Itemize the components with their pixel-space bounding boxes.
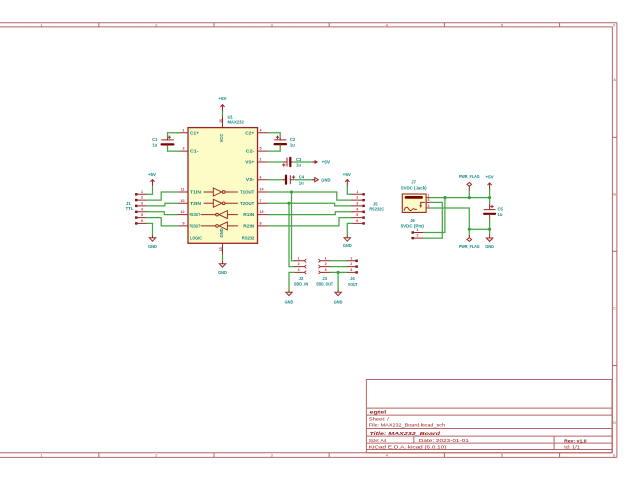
svg-text:1: 1	[183, 128, 185, 132]
J5 pin 5	[352, 213, 365, 219]
junction T2OUT branch	[287, 202, 290, 205]
svg-text:GND: GND	[334, 299, 343, 304]
svg-text:9: 9	[183, 222, 185, 226]
junction J3.3 GND branch	[337, 271, 340, 274]
svg-text:KiCad E.D.A. kicad (6.0.10): KiCad E.D.A. kicad (6.0.10)	[369, 445, 447, 450]
wire J6.1 branch	[422, 198, 445, 233]
power +5V at J1	[148, 172, 156, 186]
power +5V at J5	[343, 172, 351, 186]
svg-text:GND: GND	[218, 270, 227, 275]
svg-text:A: A	[613, 77, 616, 82]
svg-text:T2OUT: T2OUT	[240, 201, 255, 206]
svg-text:GND: GND	[285, 299, 294, 304]
J5 pin 3	[352, 202, 365, 208]
svg-text:C1: C1	[152, 137, 158, 142]
ground at rail	[485, 229, 494, 249]
svg-text:J4: J4	[350, 276, 355, 281]
wire T1OUT to J5.2	[268, 192, 352, 200]
svg-text:Size: A4: Size: A4	[369, 438, 387, 443]
svg-text:Date: 2023-01-01: Date: 2023-01-01	[419, 438, 470, 443]
svg-text:VOUT: VOUT	[348, 282, 358, 287]
svg-text:T2IN: T2IN	[190, 201, 201, 206]
U1 pin 12	[177, 210, 188, 214]
connector J6 5VDC pin	[401, 218, 425, 228]
svg-text:GND: GND	[321, 177, 330, 182]
J6 pin 1	[412, 228, 423, 234]
wire J1.1 to +5V	[147, 186, 153, 195]
svg-text:C2-: C2-	[246, 149, 255, 154]
svg-text:C3: C3	[296, 157, 302, 162]
wire J7.3 to J6.2	[422, 202, 442, 238]
U1 pin 11	[177, 188, 188, 192]
svg-text:5: 5	[141, 213, 143, 217]
wire R1IN to J5.4	[268, 212, 352, 215]
connector J5 RS232C	[369, 202, 384, 212]
svg-text:3: 3	[350, 268, 352, 272]
U1 pin 14	[258, 188, 269, 192]
svg-text:GND: GND	[343, 243, 352, 248]
J5 pin 6	[352, 219, 365, 225]
svg-text:+5V: +5V	[148, 172, 156, 177]
svg-text:5VDC (Jack): 5VDC (Jack)	[401, 186, 427, 191]
svg-text:1: 1	[428, 193, 430, 197]
svg-text:1: 1	[417, 228, 419, 232]
J3 pin 1	[319, 256, 331, 262]
svg-text:1u: 1u	[290, 143, 295, 148]
capacitor C4	[268, 175, 315, 186]
svg-text:T1IN: T1IN	[190, 190, 201, 195]
node +5V label at C3	[313, 160, 331, 165]
svg-text:VS+: VS+	[245, 160, 255, 165]
U1 pin 10	[177, 199, 188, 203]
J1 pin 3	[135, 202, 147, 208]
svg-text:SBD_OUT: SBD_OUT	[316, 281, 333, 286]
U1 buffer R2	[201, 222, 238, 230]
svg-text:1u: 1u	[299, 180, 304, 185]
wire T2OUT branch to J2.2	[289, 203, 294, 266]
J5 pin 1	[352, 190, 365, 196]
wire J1.2 to T1IN	[147, 192, 177, 200]
ground at J3	[334, 290, 343, 304]
J1 pin 6	[135, 219, 147, 225]
svg-text:7: 7	[260, 199, 262, 203]
connector J3 SBD_OUT	[316, 276, 333, 286]
svg-text:12: 12	[181, 210, 185, 214]
wire T2OUT to J5.3	[268, 203, 352, 206]
svg-text:3: 3	[428, 198, 430, 202]
wire J5.1 to +5V	[347, 186, 352, 195]
junction gnd corner	[488, 228, 491, 231]
svg-text:C2: C2	[290, 137, 296, 142]
svg-text:+5V: +5V	[343, 172, 351, 177]
J1 pin 4	[135, 207, 147, 213]
J7 pin 2	[427, 204, 431, 208]
svg-text:LOGIC: LOGIC	[190, 235, 202, 240]
svg-text:VCC: VCC	[219, 134, 224, 143]
wire J2.3 to GND	[289, 272, 294, 290]
wire J1.6 to GND	[147, 223, 153, 236]
svg-text:R1IN: R1IN	[243, 212, 254, 217]
svg-text:10: 10	[181, 199, 185, 203]
wire J3.1 to J4.1	[331, 260, 348, 262]
svg-text:14: 14	[260, 188, 264, 192]
U1 buffer R1	[201, 211, 238, 219]
op-amp U1 MAX232 body	[188, 114, 258, 243]
svg-text:PWR_FLAG: PWR_FLAG	[459, 174, 480, 179]
svg-text:Rev: v1.0: Rev: v1.0	[564, 438, 587, 443]
svg-text:SBD_IN: SBD_IN	[294, 281, 309, 286]
U1 pin 16	[219, 116, 223, 128]
svg-text:16: 16	[219, 119, 223, 123]
svg-text:3: 3	[183, 147, 185, 151]
svg-text:C2+: C2+	[245, 130, 255, 135]
U1 pin 15	[219, 243, 223, 255]
svg-text:4: 4	[260, 128, 262, 132]
svg-text:TTL: TTL	[126, 206, 134, 211]
svg-text:2: 2	[428, 204, 430, 208]
svg-text:R2OUT: R2OUT	[190, 223, 201, 228]
connector J4 VOUT	[348, 276, 358, 287]
U1 pin 1	[177, 128, 188, 132]
J4 pin 3	[348, 268, 358, 274]
svg-text:+5V: +5V	[486, 174, 494, 179]
svg-text:2: 2	[325, 262, 327, 266]
svg-text:1: 1	[298, 256, 300, 260]
capacitor C3	[268, 157, 314, 167]
ground at J5	[343, 236, 352, 248]
svg-text:Title: MAX232_Board: Title: MAX232_Board	[370, 431, 441, 436]
svg-text:+5V: +5V	[218, 96, 226, 101]
J2 pin 2	[294, 262, 306, 268]
connector J1 TTL	[126, 201, 134, 211]
svg-text:11: 11	[181, 188, 185, 192]
svg-text:1u: 1u	[152, 143, 157, 148]
svg-text:RS232C: RS232C	[369, 207, 384, 212]
U1 pin 5	[258, 147, 269, 151]
svg-text:T1OUT: T1OUT	[240, 190, 255, 195]
svg-text:13: 13	[260, 210, 264, 214]
svg-text:+5V: +5V	[322, 160, 331, 165]
wire R2IN to J5.5	[268, 218, 352, 226]
U1 pin 4	[258, 128, 269, 132]
svg-text:GND: GND	[485, 244, 494, 249]
svg-text:R1OUT: R1OUT	[190, 212, 201, 217]
svg-text:1: 1	[325, 256, 327, 260]
U1 pin 9	[177, 222, 188, 226]
svg-text:C: C	[613, 306, 616, 311]
capacitor C5	[484, 198, 503, 230]
svg-text:File: MAX232_Board.kicad_sch: File: MAX232_Board.kicad_sch	[369, 423, 446, 428]
connector J7 5VDC jack	[401, 180, 427, 213]
power +5V at rail	[486, 174, 494, 197]
J3 pin 3	[319, 268, 331, 274]
power +5V above U1	[218, 96, 226, 116]
U1 buffer T2	[204, 199, 238, 207]
svg-text:RS232: RS232	[242, 235, 255, 240]
svg-text:6: 6	[356, 219, 358, 223]
node GND label at C4	[313, 177, 331, 182]
U1 pin 13	[258, 210, 269, 214]
U1 pin 8	[258, 222, 269, 226]
svg-text:C5: C5	[498, 206, 504, 211]
power flag top	[459, 174, 480, 197]
svg-text:8: 8	[260, 222, 262, 226]
wire J1.5 to R2OUT	[147, 218, 177, 226]
svg-text:1u: 1u	[498, 212, 503, 217]
wire J1.4 to R1OUT	[147, 212, 177, 215]
svg-text:6: 6	[260, 175, 262, 179]
svg-text:Sheet: /: Sheet: /	[369, 416, 390, 421]
wire J3.3 to J4.3	[331, 271, 348, 273]
J1 pin 5	[135, 213, 147, 219]
svg-text:2: 2	[350, 262, 352, 266]
svg-text:R2IN: R2IN	[243, 223, 254, 228]
J7 pin 1	[427, 193, 431, 197]
wire J7.1 to +5V rail	[431, 197, 490, 199]
svg-text:B: B	[613, 192, 616, 197]
J1 pin 2	[135, 196, 147, 202]
wire T1OUT branch to J2.1	[292, 192, 295, 261]
power flag bottom	[459, 229, 480, 249]
svg-text:2: 2	[141, 196, 143, 200]
U1 pin 2	[258, 158, 269, 162]
U1 pin 7	[258, 199, 269, 203]
junction J6 branch	[443, 196, 446, 199]
svg-text:PWR_FLAG: PWR_FLAG	[459, 244, 480, 249]
capacitor C2	[268, 133, 296, 151]
svg-text:5: 5	[356, 213, 358, 217]
capacitor C1	[152, 133, 180, 151]
svg-text:VS-: VS-	[246, 177, 255, 182]
wire J3.2 to J4.2	[331, 266, 348, 268]
svg-text:Id: 1/1: Id: 1/1	[564, 445, 580, 450]
svg-text:J7: J7	[411, 180, 416, 185]
J7 pin 3	[427, 198, 431, 202]
title block	[366, 380, 612, 453]
wire J5.6 to GND	[347, 223, 352, 236]
svg-text:4: 4	[141, 207, 143, 211]
svg-text:MAX232: MAX232	[228, 119, 245, 124]
J6 pin 2	[412, 234, 423, 240]
svg-text:egtel: egtel	[370, 409, 387, 414]
svg-text:15: 15	[219, 247, 223, 251]
ground below U1	[218, 255, 227, 275]
ground at J1	[148, 236, 157, 249]
junction flag bottom	[468, 228, 471, 231]
J4 pin 2	[348, 262, 358, 268]
J5 pin 2	[352, 196, 365, 202]
junction PWR_FLAG branch	[468, 196, 471, 199]
svg-text:1u: 1u	[296, 163, 301, 168]
U1 buffer T1	[204, 188, 238, 196]
svg-text:C1-: C1-	[190, 149, 199, 154]
J5 pin 4	[352, 207, 365, 213]
svg-text:C4: C4	[299, 175, 305, 180]
svg-text:5VDC (Pin): 5VDC (Pin)	[401, 223, 425, 228]
junction T1OUT branch	[290, 190, 293, 193]
svg-text:2: 2	[298, 262, 300, 266]
ground at J2	[285, 290, 294, 304]
J2 pin 1	[294, 256, 306, 262]
svg-text:D: D	[613, 420, 616, 425]
svg-text:C1+: C1+	[190, 130, 200, 135]
svg-text:4: 4	[356, 207, 358, 211]
J1 pin 1	[135, 190, 147, 196]
wire junction to GND at J3	[337, 272, 339, 290]
svg-text:2: 2	[356, 196, 358, 200]
svg-text:1: 1	[356, 190, 358, 194]
junction +5V corner	[488, 196, 491, 199]
U1 pin 3	[177, 147, 188, 151]
wire J7.2 to GND rail	[431, 208, 470, 229]
svg-text:GND: GND	[219, 228, 224, 237]
svg-text:3: 3	[298, 268, 300, 272]
J2 pin 3	[294, 268, 306, 274]
connector J2 SBD_IN	[294, 276, 309, 286]
U1 pin 6	[258, 175, 269, 179]
svg-text:3: 3	[141, 202, 143, 206]
J4 pin 1	[348, 256, 358, 262]
svg-text:1: 1	[141, 190, 143, 194]
svg-text:2: 2	[417, 234, 419, 238]
svg-text:3: 3	[325, 268, 327, 272]
svg-text:5: 5	[260, 147, 262, 151]
wire J1.3 to T2IN	[147, 203, 177, 206]
svg-text:GND: GND	[148, 244, 157, 249]
wire GND rail	[469, 228, 489, 230]
svg-text:2: 2	[260, 158, 262, 162]
svg-text:6: 6	[141, 219, 143, 223]
J3 pin 2	[319, 262, 331, 268]
svg-text:1: 1	[350, 256, 352, 260]
svg-text:3: 3	[356, 202, 358, 206]
